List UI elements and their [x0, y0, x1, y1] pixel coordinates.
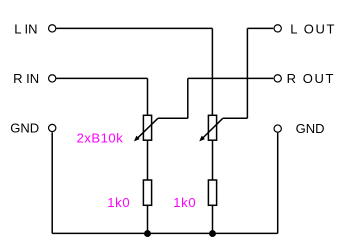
svg-text:1k0: 1k0 — [173, 195, 196, 210]
potentiometer P2 body — [208, 115, 216, 140]
terminal GND right — [274, 125, 281, 132]
wire R IN vertical drop to pot P1 — [147, 78, 149, 115]
svg-text:GND: GND — [296, 121, 325, 136]
svg-text:L IN: L IN — [14, 21, 37, 36]
wire left GND drop — [51, 132, 53, 233]
terminal L OUT — [274, 25, 281, 32]
wire L OUT vertical drop — [246, 28, 248, 118]
potentiometer P1 wiper arrow — [135, 118, 158, 141]
wire R OUT horizontal — [188, 77, 273, 79]
junction dot left — [144, 230, 151, 237]
wire pot P1 wiper horizontal — [158, 117, 188, 119]
wire pot P2 wiper horizontal — [223, 117, 248, 119]
svg-text:1k0: 1k0 — [107, 195, 130, 210]
wire resistor R2 bottom to ground rail — [212, 205, 214, 233]
junction dot right — [209, 230, 216, 237]
wire R IN horizontal — [56, 77, 147, 79]
wire right GND drop — [277, 133, 279, 234]
resistor R1 body — [143, 180, 151, 205]
terminal R IN — [49, 75, 56, 82]
potentiometer P1 body — [143, 115, 151, 140]
potentiometer P2 wiper arrow — [200, 118, 223, 141]
wire pot P1 wiper vertical — [187, 78, 189, 118]
terminal GND left — [49, 124, 56, 131]
wire resistor R1 bottom to ground rail — [147, 205, 149, 233]
wire L IN vertical drop to pot P2 — [211, 28, 213, 115]
svg-text:L OUT: L OUT — [290, 21, 336, 36]
terminal L IN — [49, 25, 56, 32]
svg-text:GND: GND — [10, 120, 39, 135]
terminal R OUT — [274, 75, 281, 82]
wire L OUT horizontal — [247, 27, 273, 29]
wire pot P1 bottom to resistor R1 — [147, 140, 149, 180]
wire L IN horizontal — [56, 27, 212, 29]
svg-text:R IN: R IN — [13, 71, 39, 86]
wire pot P2 bottom to resistor R2 — [212, 140, 214, 180]
wire ground rail — [52, 232, 278, 234]
svg-text:2xB10k: 2xB10k — [77, 130, 124, 145]
resistor R2 body — [208, 180, 216, 205]
svg-text:R OUT: R OUT — [287, 71, 335, 86]
